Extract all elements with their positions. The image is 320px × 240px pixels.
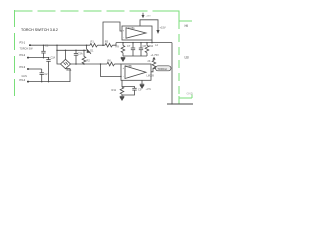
svg-text:R10: R10	[149, 45, 154, 48]
svg-text:TORCH SW: TORCH SW	[20, 48, 34, 51]
resistor R9 hanging	[121, 43, 125, 56]
capacitor C3A	[74, 50, 78, 64]
op-amp U2 output wire	[151, 68, 156, 72]
mini rail to ground	[123, 55, 147, 57]
svg-text:C7: C7	[127, 44, 131, 48]
op-amp U1 box	[122, 26, 152, 40]
svg-text:C2A: C2A	[51, 57, 56, 60]
ground under R9	[121, 57, 125, 61]
resistor R5 inline	[105, 43, 113, 47]
capacitor C2	[40, 69, 44, 82]
wire pin3	[28, 68, 42, 70]
op-amp U1 triangle	[126, 28, 146, 38]
svg-text:P3-2: P3-2	[20, 53, 26, 57]
svg-text:C3A: C3A	[78, 52, 83, 56]
svg-text:C9: C9	[138, 88, 142, 92]
wire pin1	[30, 44, 62, 46]
wire right vertical down	[171, 43, 173, 104]
wire jog up to node wire	[113, 43, 117, 46]
svg-text:R5: R5	[105, 40, 109, 44]
svg-text:-: -	[123, 75, 124, 78]
svg-text:BR1: BR1	[67, 68, 73, 72]
svg-text:R11: R11	[112, 88, 117, 92]
svg-text:IC28B: IC28B	[125, 65, 132, 68]
svg-text:P3-4: P3-4	[20, 78, 26, 82]
svg-text:R6: R6	[108, 58, 112, 62]
svg-text:R1: R1	[91, 40, 95, 44]
svg-text:TORCH SWITCH 3.8.2: TORCH SWITCH 3.8.2	[21, 28, 58, 32]
power arrow small on U1 supply	[142, 13, 144, 15]
op-amp U1 output stub	[151, 40, 153, 43]
capacitor C1	[41, 45, 45, 57]
svg-text:LM139: LM139	[147, 75, 155, 78]
ground under U2	[140, 80, 144, 88]
svg-text:C2: C2	[44, 72, 48, 76]
wire pin1 continuation with resistor R1	[62, 44, 90, 46]
sheet border left (green dashed)	[14, 10, 16, 100]
port stub bottom-right (green)	[179, 97, 192, 99]
wire pin2	[28, 57, 49, 59]
svg-text:HI: HI	[185, 24, 189, 28]
op-amp U2 triangle	[125, 66, 146, 79]
wire R6 to op-amp2	[115, 63, 122, 65]
diode D1 (diagonal)	[87, 45, 92, 54]
svg-text:R2: R2	[87, 59, 91, 63]
wire pin4 to bridge bottom	[28, 69, 70, 82]
power pin loop U1	[140, 20, 158, 30]
svg-text:C1: C1	[45, 44, 49, 48]
junction dots	[41, 42, 173, 105]
ground under R11	[120, 96, 124, 100]
wire U2 to RC filter	[121, 80, 123, 87]
resistor R2 (vertical)	[82, 50, 86, 64]
capacitor C7 hanging	[131, 43, 135, 56]
svg-text:+15V: +15V	[146, 88, 152, 91]
op-amp U2 box	[121, 64, 151, 80]
wire bottom right rail	[167, 103, 193, 105]
sheet border top (green dashed)	[15, 10, 162, 12]
svg-text:2K: 2K	[148, 60, 151, 63]
svg-text:-: -	[123, 36, 124, 39]
feedback loop wire op-amp U1	[103, 22, 122, 45]
svg-text:D1: D1	[90, 49, 94, 53]
power arrow +15V	[156, 30, 159, 34]
svg-text:P3-1: P3-1	[20, 41, 26, 45]
capacitor C8 hanging	[139, 43, 143, 56]
capacitor pin2 to pin4	[46, 58, 50, 82]
resistor R1 inline	[90, 43, 98, 47]
wire bridge top to rail	[65, 50, 67, 59]
border right bottom segment (green solid)	[178, 96, 180, 104]
svg-text:+15V: +15V	[146, 16, 152, 18]
svg-text:C8: C8	[143, 44, 147, 48]
svg-text:IC28A: IC28A	[128, 27, 135, 30]
port stub HI (green)	[179, 20, 192, 22]
svg-text:R9: R9	[116, 45, 120, 49]
wire between R1 and R5	[98, 44, 106, 46]
pull-up resistor R8	[152, 60, 156, 69]
capacitor C9 parallel loop	[122, 87, 137, 96]
svg-text:LB: LB	[185, 56, 190, 60]
resistor R11	[120, 87, 124, 96]
svg-text:GND: GND	[187, 92, 193, 96]
svg-text:+1.75V: +1.75V	[151, 53, 160, 57]
resistor R10 hanging	[145, 43, 149, 56]
lower rail node B	[71, 63, 108, 65]
svg-text:TORCH: TORCH	[157, 67, 166, 71]
output port pill	[156, 66, 172, 71]
border right vertical (green dashed)	[178, 21, 180, 96]
border top-right corner (green solid)	[160, 11, 179, 21]
svg-text:+15V: +15V	[160, 26, 166, 30]
upper rail	[57, 49, 87, 51]
wire to op-amp2 inverting input	[101, 64, 122, 77]
bridge rectifier BR1	[61, 59, 71, 68]
rail to bridge (left vertical)	[57, 45, 61, 64]
main node wire to right edge	[116, 42, 172, 44]
svg-text:GUN: GUN	[22, 75, 28, 78]
svg-text:P3-3: P3-3	[20, 65, 26, 69]
power arrow +1.75V	[152, 57, 155, 60]
resistor R6 inline	[107, 62, 115, 66]
